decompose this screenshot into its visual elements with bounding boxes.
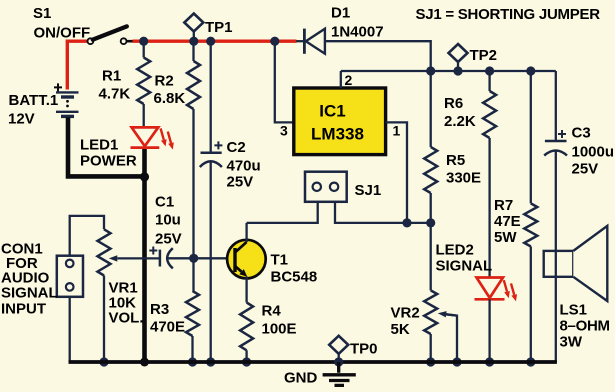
battery BATT.1 plus sign xyxy=(54,83,62,91)
wire speaker to ground xyxy=(555,251,557,362)
svg-text:VR2: VR2 xyxy=(391,305,420,322)
wire red +12V rail xyxy=(133,40,297,43)
LED2 cathode bar xyxy=(475,298,505,301)
svg-text:D1: D1 xyxy=(331,5,350,22)
svg-text:BATT.1: BATT.1 xyxy=(9,92,59,109)
junction VR1 ground xyxy=(99,357,108,366)
svg-text:1000u: 1000u xyxy=(572,144,615,161)
svg-text:TP1: TP1 xyxy=(205,19,233,36)
svg-text:T1: T1 xyxy=(271,252,289,269)
svg-text:BC548: BC548 xyxy=(271,269,318,286)
LED2 triangle xyxy=(477,278,504,298)
wire regulated rail xyxy=(341,70,556,72)
junction R3 ground xyxy=(188,357,197,366)
T1 base bar xyxy=(233,248,236,272)
wire C2 top lead xyxy=(210,41,212,152)
wire R7 bottom lead xyxy=(530,247,532,363)
junction C2 ground xyxy=(206,357,215,366)
wire R2 bottom to C1 junction xyxy=(192,109,194,258)
wire R7 top lead xyxy=(530,71,532,203)
junction thick wire ground xyxy=(140,358,149,367)
T1 collector stroke xyxy=(235,242,247,253)
jumper SJ1 box xyxy=(305,172,347,202)
svg-text:LED1: LED1 xyxy=(80,137,118,154)
wire T1 collector up xyxy=(245,223,247,242)
wire LED1 cathode thick xyxy=(142,148,147,177)
wire C3 to speaker xyxy=(555,151,557,251)
svg-text:R6: R6 xyxy=(444,95,463,112)
SJ1 pin circle right xyxy=(330,183,338,191)
wire IC1 pin3 xyxy=(275,41,294,122)
wire TP1 stem xyxy=(193,32,195,42)
wire R1 to LED1 xyxy=(143,104,145,128)
svg-text:1N4007: 1N4007 xyxy=(331,24,384,41)
capacitor C2 plus xyxy=(214,141,222,149)
wire R1 top lead xyxy=(143,41,145,57)
junction adj node R5 xyxy=(426,218,435,227)
svg-text:2.2K: 2.2K xyxy=(444,113,476,130)
testpoint TP0 xyxy=(329,336,348,354)
wire C2 bottom lead xyxy=(210,162,212,362)
wire R2 top lead xyxy=(192,41,194,61)
svg-text:470u: 470u xyxy=(227,158,261,175)
svg-text:R3: R3 xyxy=(150,301,169,318)
wire VR2 top lead xyxy=(430,223,432,291)
svg-text:R2: R2 xyxy=(155,73,174,90)
resistor R5 xyxy=(424,147,437,193)
wire ground rail xyxy=(69,360,557,364)
svg-text:47E: 47E xyxy=(494,213,521,230)
LED2 arrow 1 xyxy=(504,280,507,291)
svg-text:TP2: TP2 xyxy=(470,47,498,64)
switch S1 lever xyxy=(93,26,127,39)
junction pin3 riser top xyxy=(270,37,279,46)
junction rail-D1 xyxy=(426,66,435,75)
svg-text:LM338: LM338 xyxy=(311,125,364,144)
CON1 pin circle top xyxy=(66,260,74,268)
wire IC1 pin1 xyxy=(386,122,407,222)
svg-text:LS1: LS1 xyxy=(560,302,588,319)
svg-text:12V: 12V xyxy=(8,111,35,128)
capacitor C2 curved plate xyxy=(200,161,222,167)
resistor R4 xyxy=(240,303,253,351)
junction TP1 xyxy=(189,37,198,46)
battery BATT.1 cell1 short plate xyxy=(61,95,74,98)
svg-text:GND: GND xyxy=(284,370,318,387)
wire TP2 stem xyxy=(457,62,459,71)
wire R4 bottom lead xyxy=(245,350,247,362)
junction C2 top xyxy=(206,37,215,46)
svg-text:SIGNAL: SIGNAL xyxy=(436,258,493,275)
svg-text:C1: C1 xyxy=(155,194,174,211)
junction R7 ground xyxy=(526,357,535,366)
capacitor C3 plus xyxy=(558,130,566,138)
LED2 arrow 2 xyxy=(511,283,514,294)
battery BATT.1 cell1 long plate xyxy=(56,91,79,93)
battery BATT.1 cell2 short plate xyxy=(61,115,74,118)
wire thick battery negative xyxy=(68,118,145,363)
wire TP0 stem xyxy=(338,354,340,362)
wire red battery positive xyxy=(67,41,87,89)
svg-text:S1: S1 xyxy=(33,5,51,22)
diode D1 triangle xyxy=(306,29,325,54)
junction LED1 cathode xyxy=(140,172,149,181)
junction R7 top xyxy=(526,66,535,75)
wire R3 bottom lead xyxy=(191,336,193,362)
svg-text:25V: 25V xyxy=(227,174,254,191)
resistor R7 xyxy=(524,203,537,246)
wire R6 top lead xyxy=(488,71,490,91)
wire VR1 bottom lead xyxy=(103,276,105,363)
junction TP2 xyxy=(453,66,462,75)
testpoint TP2 xyxy=(449,44,468,62)
transistor T1 body xyxy=(227,240,266,279)
junction R1 top xyxy=(139,37,148,46)
junction LED2 ground xyxy=(485,357,494,366)
wire CON1 top to VR1 xyxy=(70,216,104,256)
wire R3 top lead xyxy=(192,258,194,291)
svg-text:4.7K: 4.7K xyxy=(99,86,131,103)
svg-text:25V: 25V xyxy=(572,161,599,178)
wire base junction to T1 xyxy=(194,257,235,259)
resistor R2 xyxy=(187,61,200,109)
svg-text:10u: 10u xyxy=(155,212,181,229)
capacitor C1 plus xyxy=(149,247,157,255)
wire R5 top lead xyxy=(430,71,432,147)
potentiometer VR1 xyxy=(98,229,111,275)
VR2 wiper arrow xyxy=(445,314,457,362)
svg-text:3: 3 xyxy=(280,123,288,139)
switch S1 left terminal xyxy=(88,38,94,44)
diode D1 cathode bar xyxy=(303,29,306,54)
svg-text:R5: R5 xyxy=(446,152,465,169)
SJ1 pin circle left xyxy=(313,183,321,191)
svg-text:TP0: TP0 xyxy=(350,341,378,358)
resistor R1 xyxy=(137,58,150,105)
svg-text:25V: 25V xyxy=(155,231,182,248)
switch S1 right terminal xyxy=(121,38,127,44)
battery dots xyxy=(66,100,69,103)
svg-text:330E: 330E xyxy=(446,170,481,187)
connector CON1 box xyxy=(57,256,83,297)
wire CON1 bottom to ground xyxy=(69,297,71,362)
CON1 pin circle bottom xyxy=(66,283,74,291)
wire IC1 pin2 xyxy=(340,71,342,88)
wire rail to C3 xyxy=(555,71,557,141)
svg-text:R1: R1 xyxy=(102,68,121,85)
wire D1 cathode to riser xyxy=(325,41,431,71)
svg-text:SJ1: SJ1 xyxy=(355,182,382,199)
junction adj node pin1 xyxy=(402,218,411,227)
svg-text:5K: 5K xyxy=(391,321,410,338)
capacitor C3 top plate xyxy=(545,140,567,143)
wire T1 emitter down xyxy=(245,277,247,303)
junction R6 top xyxy=(485,66,494,75)
capacitor C3 curved plate xyxy=(544,151,567,156)
svg-text:8–OHM: 8–OHM xyxy=(560,318,610,335)
junction C1-R2-R3-base node xyxy=(189,254,198,263)
svg-text:SJ1 = SHORTING JUMPER: SJ1 = SHORTING JUMPER xyxy=(416,6,601,23)
svg-text:VOL.: VOL. xyxy=(109,310,144,327)
junction R4 ground xyxy=(242,357,251,366)
T1 emitter stroke xyxy=(235,266,242,272)
op-amp IC1 body xyxy=(294,88,386,155)
wire collector to SJ1 left pin xyxy=(247,202,318,223)
resistor R6 xyxy=(483,91,496,138)
svg-text:1: 1 xyxy=(393,123,401,139)
potentiometer VR2 xyxy=(424,290,437,334)
svg-text:INPUT: INPUT xyxy=(1,301,46,318)
junction VR2 ground xyxy=(426,357,435,366)
svg-text:IC1: IC1 xyxy=(319,102,345,121)
svg-text:470E: 470E xyxy=(150,319,185,336)
wire LED2 cathode lead xyxy=(488,299,490,362)
svg-text:2: 2 xyxy=(345,72,353,88)
LED1 arrow 1 xyxy=(161,128,164,139)
wire SJ1 right pin to adj net xyxy=(335,202,431,223)
capacitor C1 left plate xyxy=(159,250,162,267)
speaker LS1 box xyxy=(544,251,574,277)
wire R6 to LED2 xyxy=(488,138,490,278)
svg-text:POWER: POWER xyxy=(80,153,137,170)
wire D1 anode stub xyxy=(296,40,303,42)
wire R5 bottom lead xyxy=(430,193,432,223)
resistor R3 xyxy=(186,291,199,336)
LED1 arrow 2 xyxy=(168,132,171,143)
LED1 cathode bar xyxy=(131,146,160,149)
svg-text:100E: 100E xyxy=(262,321,297,338)
wire C1 to base junction xyxy=(169,257,194,259)
svg-text:C3: C3 xyxy=(572,125,591,142)
capacitor C2 top plate xyxy=(201,152,222,155)
battery BATT.1 cell2 long plate xyxy=(56,111,79,113)
LED1 triangle xyxy=(132,127,159,146)
svg-text:5W: 5W xyxy=(494,229,517,246)
svg-text:ON/OFF: ON/OFF xyxy=(34,25,91,42)
wire VR2 bottom lead xyxy=(430,334,432,362)
svg-text:C2: C2 xyxy=(227,139,246,156)
svg-text:R7: R7 xyxy=(494,197,513,214)
svg-text:3W: 3W xyxy=(560,334,583,351)
ground symbol xyxy=(323,362,356,385)
speaker LS1 horn xyxy=(573,226,607,301)
svg-text:LED2: LED2 xyxy=(436,242,474,259)
svg-text:6.8K: 6.8K xyxy=(154,90,186,107)
wire S1 right stub xyxy=(126,40,133,43)
svg-text:SIGNAL: SIGNAL xyxy=(1,284,58,301)
svg-text:R4: R4 xyxy=(262,303,282,320)
capacitor C1 curved plate xyxy=(167,248,173,268)
testpoint TP1 xyxy=(184,14,203,32)
VR1 wiper arrow xyxy=(117,257,160,259)
junction TP0 xyxy=(334,357,343,366)
junction VR2 wiper ground xyxy=(452,357,461,366)
